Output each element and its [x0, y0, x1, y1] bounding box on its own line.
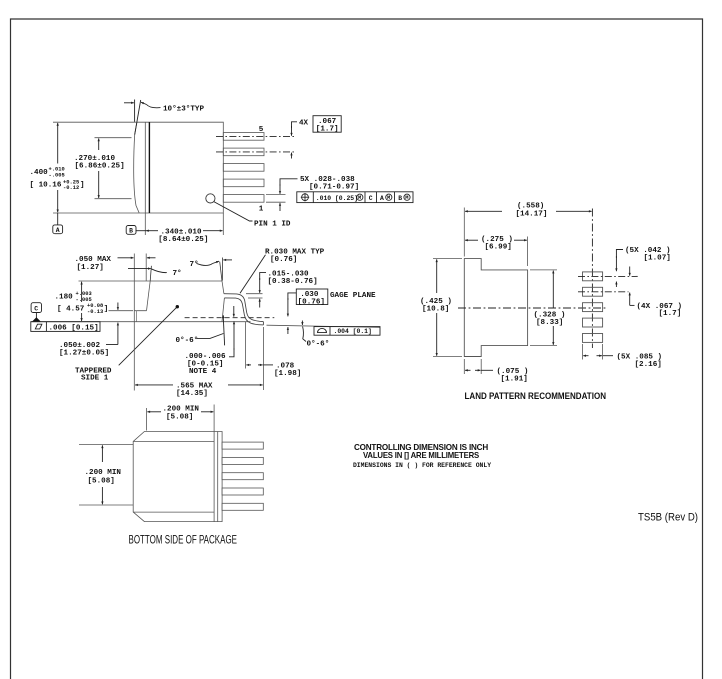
svg-text:[1.7]: [1.7]	[659, 310, 682, 318]
dimension .015-.030 up arrow	[259, 299, 261, 308]
side view body top edge with extension	[79, 280, 223, 282]
angle 10 deg vertical extension	[134, 100, 136, 122]
land pad 1	[583, 272, 603, 281]
dimension 5X .028 ext upper	[266, 194, 286, 196]
land pattern vertical centerline	[591, 209, 593, 349]
dimension .400 line upper	[57, 123, 59, 164]
svg-text:SIDE 1: SIDE 1	[81, 375, 109, 383]
svg-text:[0.38-0.76]: [0.38-0.76]	[268, 278, 318, 286]
bottom view pad bottom edge	[133, 511, 214, 513]
svg-text:B: B	[398, 195, 402, 202]
svg-text:[8.33]: [8.33]	[536, 319, 563, 327]
bottom view pad right edge	[213, 405, 215, 522]
dimension .328 line	[552, 271, 554, 308]
svg-text:TS5B (Rev D): TS5B (Rev D)	[638, 512, 698, 524]
dimension .078 ext left	[245, 322, 247, 369]
svg-text:LAND PATTERN RECOMMENDATION: LAND PATTERN RECOMMENDATION	[465, 391, 607, 401]
feature control frame position	[297, 192, 413, 203]
angle 10 deg left arrow	[124, 102, 134, 104]
side view body right face upper	[222, 281, 224, 294]
side view right vertical extension	[221, 258, 223, 281]
dimension .078 ext right	[262, 327, 264, 390]
dimension .270 extension upper	[95, 137, 132, 139]
svg-text:[14.35]: [14.35]	[176, 390, 208, 398]
svg-text:M: M	[358, 195, 361, 201]
pin 5 front	[223, 133, 264, 141]
dimension .200 left line	[101, 445, 103, 462]
dimension .400 extension bottom	[53, 212, 139, 214]
profile feature control frame	[314, 327, 380, 336]
gage plane lower arrow	[287, 327, 289, 334]
pin 2 front	[223, 179, 264, 187]
pin 1 front	[223, 195, 264, 203]
dimension 5X .028 up arrow	[279, 203, 281, 211]
svg-text:VALUES IN [] ARE MILLIMETERS: VALUES IN [] ARE MILLIMETERS	[363, 450, 480, 460]
land pattern horizontal centerline	[458, 307, 607, 309]
svg-text:.004 [0.1]: .004 [0.1]	[334, 328, 372, 335]
dimension .340 ext right	[222, 213, 224, 235]
dimension .328 ext bottom	[530, 345, 557, 347]
datum A	[53, 225, 63, 234]
dimension .270 extension lower	[95, 198, 132, 200]
svg-text:-0.12: -0.12	[63, 185, 79, 191]
flatness symbol	[35, 324, 42, 329]
dimension 4X .067 down arrow	[629, 267, 631, 276]
svg-text:1: 1	[259, 206, 264, 214]
svg-text:]: ]	[80, 182, 85, 190]
dimension .558 ext left	[463, 208, 465, 257]
seating plane line	[31, 321, 251, 323]
side view body right face lower	[222, 298, 224, 322]
side view left face extension up	[150, 266, 151, 281]
pin 5 centerline	[216, 135, 295, 137]
svg-text:GAGE PLANE: GAGE PLANE	[330, 292, 376, 300]
datum C box	[31, 303, 41, 313]
front view body outline	[134, 122, 224, 213]
dimension 5X .085 arrows	[583, 355, 588, 357]
svg-text:0°-6°: 0°-6°	[176, 336, 199, 345]
dimension .558 line	[465, 210, 502, 212]
pin 4 centerline	[216, 151, 295, 153]
tappered side leader	[119, 307, 178, 366]
dimension 4X .067 up arrow	[291, 153, 293, 159]
front view body tab edge line thick	[148, 122, 150, 213]
dimension .050 tab up arrow	[117, 323, 119, 345]
svg-text:(.558): (.558)	[517, 203, 544, 211]
svg-text:A: A	[380, 195, 384, 202]
datum C triangle	[32, 317, 42, 322]
svg-text:DIMENSIONS IN ( ) FOR REFERENC: DIMENSIONS IN ( ) FOR REFERENCE ONLY	[353, 462, 491, 469]
dimension .340 line right	[203, 230, 223, 232]
dimension .015-.030 ext lower	[248, 297, 263, 299]
lead inner line	[224, 298, 263, 325]
angle 0-6 left leader	[197, 334, 224, 339]
dimension .425 ext top	[433, 258, 462, 260]
svg-text:5: 5	[259, 126, 264, 134]
svg-text:0°-6°: 0°-6°	[307, 339, 330, 348]
dimension .425 line	[436, 259, 438, 293]
svg-text:[6.86±0.25]: [6.86±0.25]	[75, 163, 125, 171]
gage plane box	[296, 289, 328, 305]
svg-text:[5.08]: [5.08]	[88, 477, 115, 485]
svg-text:A: A	[56, 227, 60, 234]
svg-text:[ 4.57: [ 4.57	[57, 305, 85, 313]
dimension 5X .028 ext lower	[266, 201, 286, 203]
land pattern pad outline	[464, 259, 527, 357]
svg-text:[0.76]: [0.76]	[298, 298, 325, 306]
svg-text:PIN 1 ID: PIN 1 ID	[254, 220, 291, 228]
svg-text:.006 [0.15]: .006 [0.15]	[49, 325, 99, 333]
svg-text:7°: 7°	[190, 260, 199, 269]
dimension .050 MAX left arrow	[118, 257, 134, 259]
svg-text:[14.17]: [14.17]	[516, 211, 548, 219]
angle 0-6 right arc leader	[303, 327, 306, 342]
dimension 5X .042 up arrow	[615, 282, 617, 288]
svg-text:[1.7]: [1.7]	[316, 126, 339, 134]
pin 3 bottom	[222, 473, 263, 480]
dimension .015-.030 bracket	[260, 273, 266, 280]
dimension .425 ext bottom	[433, 356, 462, 358]
svg-text:C: C	[34, 305, 38, 312]
bottom view body outline	[133, 432, 222, 522]
dimension .078 arrows	[246, 364, 251, 366]
dimension 4X .067 box	[313, 116, 341, 133]
side view tab	[134, 311, 146, 322]
svg-text:BOTTOM SIDE OF PACKAGE: BOTTOM SIDE OF PACKAGE	[129, 535, 238, 547]
svg-text:[ 10.16: [ 10.16	[30, 182, 62, 190]
pin 5 bottom	[222, 503, 263, 510]
dimension .075 arrows	[465, 369, 471, 371]
svg-text:M: M	[405, 195, 408, 201]
svg-text:[1.91]: [1.91]	[501, 375, 528, 383]
dimension .015-.030 ext upper	[246, 293, 263, 295]
dimension .050 tab down arrow	[117, 303, 119, 310]
svg-text:7°: 7°	[173, 269, 182, 278]
dimension .000-.006 down arrow	[233, 306, 235, 317]
svg-text:[1.07]: [1.07]	[644, 255, 671, 263]
dimension .270 line lower	[98, 171, 100, 198]
svg-text:[6.99]: [6.99]	[485, 244, 512, 252]
svg-text:[2.16]: [2.16]	[635, 361, 662, 369]
svg-text:[1.27]: [1.27]	[77, 264, 104, 272]
gage plane dashed line	[185, 317, 275, 319]
dimension .270 line upper	[98, 138, 100, 150]
svg-text:4X: 4X	[299, 120, 309, 128]
dimension .050 MAX ext left	[133, 254, 135, 311]
svg-text:-.005: -.005	[76, 297, 92, 303]
dimension .180 line	[81, 282, 83, 302]
svg-text:[0.71-0.97]: [0.71-0.97]	[309, 183, 359, 191]
dimension .340 line left	[146, 230, 158, 232]
lead outer line	[224, 294, 264, 322]
dimension .565 line right	[228, 384, 263, 386]
dimension .050 MAX right arrow	[147, 257, 156, 259]
datum C stem	[35, 313, 37, 319]
dimension 5X .028 bracket	[280, 179, 298, 186]
dimension .075 ext left	[463, 359, 465, 374]
svg-text:C: C	[369, 195, 373, 202]
R.030 leader	[240, 255, 266, 293]
pin 1 bottom	[222, 442, 263, 449]
land pad row2 centerline	[578, 291, 629, 293]
svg-text:[0.76]: [0.76]	[270, 256, 297, 264]
dimension .275 line	[465, 239, 478, 241]
dimension .328 ext top	[530, 269, 557, 271]
dimension .000-.006 bracket	[229, 348, 234, 357]
dimension .400 extension top	[53, 121, 136, 123]
land pad 3	[583, 303, 603, 312]
svg-text:[8.64±0.25]: [8.64±0.25]	[158, 236, 208, 244]
side view right face extension up	[220, 262, 222, 282]
dimension .565 ext left	[133, 322, 135, 391]
land pad 5	[583, 334, 603, 343]
dimension 5X .042 bracket	[616, 250, 623, 259]
svg-text:-.005: -.005	[49, 172, 65, 178]
angle 10 deg right arrow and leader	[147, 105, 161, 108]
dimension .200 top line	[147, 411, 161, 413]
dimension 4X .067 bracket	[629, 293, 631, 306]
bottom view pad top edge	[133, 440, 214, 442]
svg-text:[10.8]: [10.8]	[422, 305, 449, 313]
land pad 4	[583, 318, 603, 327]
dimension 5X .085 ext left	[582, 344, 584, 360]
svg-text:B: B	[129, 228, 133, 235]
dimension .050 tab ext	[109, 310, 134, 312]
svg-text:.010 [0.25]: .010 [0.25]	[316, 195, 358, 202]
svg-text:[1.27±0.05]: [1.27±0.05]	[59, 350, 109, 358]
dimension .200 left ext upper	[79, 444, 133, 446]
dimension .275 ext right	[527, 237, 529, 267]
angle 7 deg right leader	[197, 263, 213, 265]
foot bottom extension line 0-6 deg	[267, 325, 381, 327]
flatness feature control frame	[31, 322, 100, 332]
dimension 4X .067 bracket	[292, 122, 298, 128]
profile symbol	[318, 328, 327, 332]
pin 3 front	[223, 164, 264, 172]
pin 1 id circle	[206, 194, 215, 203]
land pad 2	[583, 287, 603, 296]
svg-text:.200 MIN: .200 MIN	[163, 405, 200, 413]
dimension .050 MAX ext right	[145, 254, 147, 282]
lead foot tip	[262, 322, 264, 325]
svg-text:.180: .180	[55, 293, 74, 301]
svg-text:.050 MAX: .050 MAX	[75, 256, 112, 264]
dimension .200 top ext left	[146, 408, 148, 431]
angle 7 deg left arrow	[128, 268, 151, 270]
svg-text:M: M	[387, 195, 390, 201]
svg-text:-0.13: -0.13	[87, 309, 103, 315]
bottom view inner right edge	[217, 432, 219, 522]
land pad row1 centerline	[578, 275, 638, 277]
dimension .400 line lower	[57, 190, 59, 212]
angle 7 deg left leader	[151, 269, 167, 273]
dimension .340 ext left	[144, 213, 146, 235]
svg-text:[1.98]: [1.98]	[274, 370, 301, 378]
svg-text:NOTE 4: NOTE 4	[189, 368, 217, 376]
datum B	[126, 226, 136, 235]
dimension .075 ext right	[480, 359, 482, 374]
svg-text:[5.08]: [5.08]	[166, 414, 193, 422]
pin 4 bottom	[222, 488, 263, 495]
pin 1 id leader	[214, 202, 253, 221]
side view body left face	[147, 281, 151, 311]
svg-text:.400: .400	[30, 169, 49, 177]
pin 2 bottom	[222, 457, 263, 464]
svg-text:]: ]	[104, 305, 109, 313]
dimension .565 line left	[135, 384, 173, 386]
angle 10 deg slanted extension	[135, 100, 141, 135]
gage plane leader	[288, 293, 296, 300]
pin 4 front	[223, 148, 264, 156]
dimension 5X .085 ext right	[602, 344, 604, 360]
svg-text:.200 MIN: .200 MIN	[85, 469, 122, 477]
side view tab inner line	[136, 311, 138, 322]
dimension .200 left ext lower	[79, 504, 133, 506]
front view body tab edge line thin	[144, 122, 146, 213]
angle 7 deg right outer arrow	[223, 259, 232, 261]
svg-text:10°±3°TYP: 10°±3°TYP	[163, 105, 204, 114]
